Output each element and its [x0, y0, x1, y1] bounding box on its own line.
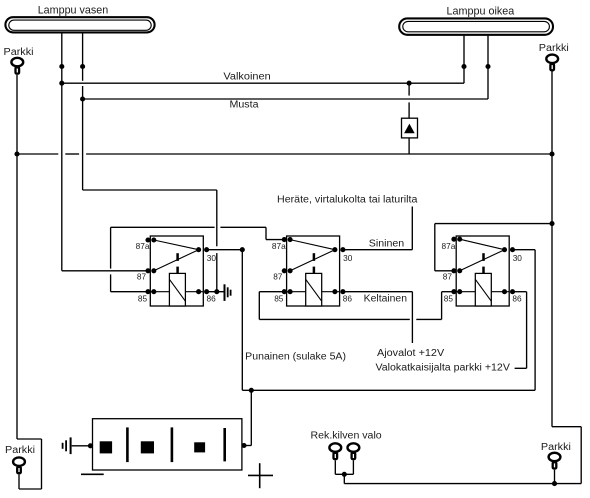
- svg-text:Valokatkaisijalta parkki +12V: Valokatkaisijalta parkki +12V: [376, 362, 511, 373]
- svg-text:87: 87: [443, 271, 453, 281]
- svg-text:85: 85: [274, 294, 284, 304]
- wire punainen corner: [242, 389, 251, 391]
- wire drop to K1 86 (lower): [216, 253, 218, 292]
- wire lower-left parkki bulb stub: [18, 474, 20, 489]
- svg-text:30: 30: [513, 253, 523, 263]
- wire lamp-right terminal B drop: [487, 35, 489, 99]
- wire lamp-left terminal B drop (upper): [82, 32, 84, 80]
- wire rek bulb right stub: [352, 460, 354, 474]
- relay K2 internal 85-86 link: [287, 291, 340, 293]
- svg-text:Punainen (sulake 5A): Punainen (sulake 5A): [245, 351, 346, 362]
- wire left riser (lower): [110, 274, 112, 291]
- node punainen junction: [249, 388, 254, 393]
- wire K3 87 feed from parkki line: [435, 223, 552, 225]
- node bottom-right parkki junction: [552, 481, 557, 486]
- wire K3 86 stub right: [513, 291, 527, 293]
- bulb Rek.kilven valo left: [329, 443, 341, 459]
- svg-text:85: 85: [138, 294, 148, 304]
- wire K2 85 riser down: [258, 292, 260, 320]
- wire right parkki drop 2: [580, 427, 582, 484]
- relay K2 armature 87-30: [290, 250, 335, 271]
- relay K1 internal 85-86 link: [150, 291, 203, 293]
- relay K2: [272, 236, 353, 306]
- relay K3 body: [456, 236, 509, 306]
- relay K2 body: [287, 236, 340, 306]
- battery plus mark: [248, 463, 273, 488]
- svg-text:Sininen: Sininen: [369, 238, 404, 249]
- wire K3 87 riser: [434, 224, 436, 271]
- relay K2 contact 87a-30: [290, 240, 335, 250]
- node battery negative: [88, 443, 93, 448]
- pin 87a: [282, 237, 287, 242]
- wire Keltainen from K2 86: [343, 291, 413, 293]
- node parkki rail right: [549, 151, 554, 156]
- wire punainen rail (fused red): [251, 389, 535, 391]
- relay K1 contact 87a-30: [154, 240, 199, 250]
- wire Valkoinen (white): [62, 82, 464, 84]
- wire lamp-left terminal A drop: [61, 32, 63, 270]
- wire lamp-right terminal A drop: [463, 35, 465, 83]
- wire bottom rail: [344, 483, 581, 485]
- bulb Parkki upper-right: [546, 55, 558, 71]
- svg-text:Heräte, virtalukolta tai latur: Heräte, virtalukolta tai laturilta: [277, 195, 418, 206]
- wire to Valokatkaisijalta label: [515, 367, 527, 369]
- node Valkoinen left junction: [59, 81, 64, 86]
- relay K2 contact gap bars: [313, 253, 316, 261]
- svg-text:Lamppu oikea: Lamppu oikea: [447, 6, 516, 18]
- wire K1 85 to left riser: [111, 291, 148, 293]
- svg-text:87: 87: [273, 271, 283, 281]
- wire K2 85 stub left: [259, 291, 284, 293]
- relay K3 coil: [475, 273, 491, 306]
- wire Keltainen drop to Ajovalot: [411, 292, 413, 343]
- wire bottom-right parkki bulb stub: [554, 470, 556, 484]
- wire jog down to K2 87a: [265, 227, 267, 239]
- bulb Parkki upper-left: [11, 58, 23, 74]
- wire parkki rail segment 3: [86, 153, 552, 155]
- node K1 30 junction: [240, 247, 245, 252]
- lamp right housing (Lamppu oikea): [399, 18, 553, 34]
- svg-text:30: 30: [343, 253, 353, 263]
- svg-text:87a: 87a: [272, 241, 286, 251]
- wire rek bulb left stub: [334, 460, 336, 474]
- pin 87: [282, 268, 287, 273]
- wire 85 rail (left of hop): [259, 318, 410, 320]
- relay K3 contact 87a-30: [460, 239, 505, 250]
- wire valkoinen to diode (upper): [408, 83, 410, 95]
- wire lamp-left B to K1 86 (horizontal): [83, 189, 217, 191]
- node K1 86 / lamp return junction: [214, 289, 219, 294]
- wire rek bulbs tie: [335, 473, 353, 475]
- pin 30: [332, 247, 337, 252]
- pin 85: [451, 289, 456, 294]
- node Musta left junction: [80, 96, 85, 101]
- svg-text:86: 86: [512, 294, 522, 304]
- wire K1 30 output: [207, 249, 243, 251]
- node lamp-left A connector: [59, 64, 64, 69]
- node lamp-left B connector: [80, 64, 85, 69]
- wire drop to K1 86 (upper): [216, 190, 218, 246]
- wire 85 rail (right of hop): [416, 318, 441, 320]
- svg-text:87: 87: [137, 271, 147, 281]
- relay K2 coil: [306, 273, 322, 306]
- relay K3 internal 85-86 link: [456, 291, 509, 293]
- wire K3 86 drop: [526, 292, 528, 369]
- battery B1: [93, 419, 242, 470]
- wire left riser (upper): [110, 227, 112, 268]
- bulb Parkki lower-left: [13, 457, 25, 473]
- wire K1 85 to K2 87a (horizontal, right of hop): [220, 226, 266, 228]
- wire Musta (black): [83, 98, 488, 100]
- wire right parkki jog right: [552, 426, 581, 428]
- node lamp-right B connector: [485, 64, 490, 69]
- node rek tie junction: [342, 472, 347, 477]
- wire into K3 30: [513, 249, 536, 251]
- ground chassis at K1 86: [225, 284, 231, 301]
- wire Sininen into K2 30: [343, 249, 412, 251]
- svg-text:Parkki: Parkki: [4, 47, 34, 58]
- wire lower-left parkki jog right: [17, 438, 42, 440]
- diode D1: [402, 118, 418, 138]
- wire K1 85 to K2 87a (horizontal, left of hop): [111, 226, 215, 228]
- node parkki line tap: [549, 221, 554, 226]
- pin 87a: [451, 237, 456, 242]
- relay K3: [442, 236, 523, 306]
- relay K1 coil: [169, 273, 185, 306]
- node parkki rail left: [14, 151, 19, 156]
- wire lamp-left A to K1 87: [62, 270, 148, 272]
- svg-text:86: 86: [343, 294, 353, 304]
- pin 30: [502, 247, 507, 252]
- relay K1 body: [150, 236, 203, 306]
- wire punainen rail riser to K3 30: [534, 250, 536, 391]
- node valkoinen diode tap: [407, 81, 412, 86]
- relay K3 contact gap bars: [482, 253, 485, 261]
- svg-text:Parkki: Parkki: [5, 445, 35, 456]
- wire K1 86 to ground: [207, 291, 225, 293]
- wire left parkki drop: [16, 75, 18, 439]
- ground chassis at battery: [63, 437, 71, 454]
- pin 87: [451, 268, 456, 273]
- pin 86: [502, 289, 507, 294]
- relay K1 armature 87-30: [154, 250, 199, 271]
- svg-text:Parkki: Parkki: [541, 442, 571, 453]
- svg-text:Ajovalot +12V: Ajovalot +12V: [377, 348, 445, 359]
- svg-text:85: 85: [444, 294, 454, 304]
- pin 30: [196, 247, 201, 252]
- relay K1: [136, 236, 217, 306]
- bulb Rek.kilven valo right: [348, 443, 360, 459]
- wire battery positive stub: [242, 445, 251, 447]
- wire battery negative stub: [72, 445, 93, 447]
- wire into K2 87a: [266, 239, 284, 241]
- svg-text:Musta: Musta: [230, 99, 259, 110]
- svg-text:86: 86: [207, 294, 217, 304]
- wire parkki rail segment 2: [65, 153, 79, 155]
- wire K1 30 down to punainen rail: [241, 250, 243, 391]
- pin 85: [145, 289, 150, 294]
- wire into K3 87: [435, 270, 454, 272]
- lamp left housing (Lamppu vasen): [5, 17, 154, 32]
- svg-text:87a: 87a: [136, 241, 150, 251]
- wire punainen drop to battery: [250, 390, 252, 445]
- pin 87a: [145, 237, 150, 242]
- wire into K3 85: [442, 291, 454, 293]
- wire parkki rail segment 1: [17, 153, 58, 155]
- wire diode to parkki rail: [408, 138, 410, 154]
- pin 87: [145, 268, 150, 273]
- svg-text:Rek.kilven valo: Rek.kilven valo: [311, 430, 383, 441]
- node lamp-right A connector: [461, 64, 466, 69]
- relay K3 armature 87-30: [460, 250, 505, 271]
- wire rek drop to bottom rail: [343, 474, 345, 483]
- wire 85 rail riser up: [441, 292, 443, 320]
- svg-text:Parkki: Parkki: [539, 43, 569, 54]
- wire valkoinen to diode (below musta hop): [408, 102, 410, 118]
- svg-text:30: 30: [207, 253, 217, 263]
- battery minus mark: [81, 473, 104, 475]
- wire lower-left parkki bottom: [19, 488, 42, 490]
- node battery positive: [241, 443, 246, 448]
- svg-text:87a: 87a: [442, 241, 456, 251]
- wire lower-left parkki drop: [41, 439, 43, 489]
- wire Herate drop to K2 30: [411, 207, 413, 250]
- svg-text:Lamppu vasen: Lamppu vasen: [38, 5, 109, 17]
- bulb Parkki lower-right: [549, 453, 561, 469]
- svg-text:Valkoinen: Valkoinen: [223, 72, 270, 83]
- pin 86: [332, 289, 337, 294]
- wire right parkki drop: [551, 72, 553, 427]
- wire lamp-left terminal B drop (lower): [82, 86, 84, 190]
- pin 85: [282, 289, 287, 294]
- relay K1 contact gap bars: [176, 253, 179, 261]
- pin 86: [196, 289, 201, 294]
- svg-text:Keltainen: Keltainen: [364, 294, 407, 305]
